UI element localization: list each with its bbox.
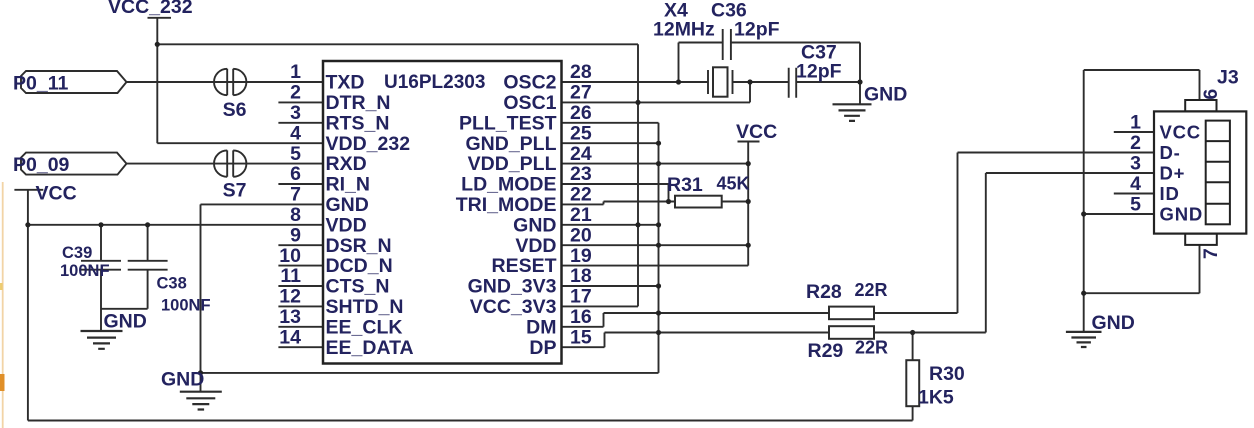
svg-text:C39: C39: [62, 244, 92, 262]
svg-text:CTS_N: CTS_N: [326, 276, 390, 298]
svg-text:DM: DM: [526, 316, 556, 338]
svg-text:DTR_N: DTR_N: [326, 92, 391, 114]
svg-text:D-: D-: [1160, 142, 1181, 163]
svg-text:22: 22: [570, 184, 592, 206]
svg-text:VCC_3V3: VCC_3V3: [470, 296, 557, 318]
svg-text:U16PL2303: U16PL2303: [384, 72, 485, 93]
svg-text:3: 3: [1130, 153, 1141, 175]
svg-text:21: 21: [570, 204, 592, 226]
svg-text:7: 7: [1200, 248, 1222, 259]
svg-text:12MHz: 12MHz: [653, 19, 715, 41]
svg-text:17: 17: [570, 286, 592, 308]
svg-text:6: 6: [290, 163, 301, 185]
svg-text:28: 28: [570, 61, 592, 83]
svg-text:GND: GND: [161, 369, 204, 391]
svg-text:VDD_PLL: VDD_PLL: [468, 153, 557, 175]
svg-text:27: 27: [570, 82, 592, 104]
svg-text:22R: 22R: [855, 338, 888, 358]
svg-text:13: 13: [279, 306, 301, 328]
svg-text:12pF: 12pF: [796, 61, 842, 83]
svg-text:GND: GND: [104, 311, 147, 333]
svg-text:11: 11: [280, 265, 301, 287]
svg-text:VCC: VCC: [1160, 122, 1201, 143]
svg-text:R29: R29: [808, 340, 844, 362]
svg-text:GND: GND: [326, 194, 369, 216]
svg-text:LD_MODE: LD_MODE: [461, 174, 556, 196]
svg-text:VCC: VCC: [736, 121, 777, 143]
svg-text:S7: S7: [223, 180, 247, 202]
svg-text:D+: D+: [1160, 163, 1186, 184]
svg-text:26: 26: [570, 102, 592, 124]
svg-text:R31: R31: [667, 174, 703, 196]
svg-text:100NF: 100NF: [161, 297, 211, 315]
svg-text:VCC: VCC: [36, 183, 77, 205]
svg-text:RXD: RXD: [326, 153, 367, 175]
svg-text:VDD: VDD: [326, 214, 367, 236]
svg-text:12pF: 12pF: [734, 19, 780, 41]
svg-text:12: 12: [279, 286, 301, 308]
svg-text:5: 5: [290, 143, 301, 165]
svg-text:TRI_MODE: TRI_MODE: [456, 194, 557, 216]
svg-text:GND: GND: [1092, 312, 1135, 334]
svg-text:DCD_N: DCD_N: [326, 255, 393, 277]
svg-text:P0_09: P0_09: [13, 154, 70, 176]
svg-text:15: 15: [570, 326, 592, 348]
svg-text:100NF: 100NF: [60, 262, 110, 280]
svg-text:VCC_232: VCC_232: [108, 0, 193, 18]
svg-text:16: 16: [570, 306, 592, 328]
svg-text:2: 2: [1130, 132, 1141, 154]
svg-text:1: 1: [1130, 112, 1141, 134]
svg-text:45K: 45K: [717, 174, 750, 194]
svg-text:EE_DATA: EE_DATA: [326, 337, 414, 359]
svg-text:PLL_TEST: PLL_TEST: [459, 112, 557, 134]
svg-text:RESET: RESET: [491, 255, 556, 277]
svg-text:RTS_N: RTS_N: [326, 112, 390, 134]
svg-text:ID: ID: [1160, 183, 1180, 204]
svg-text:R30: R30: [929, 363, 965, 385]
svg-text:C38: C38: [157, 275, 187, 293]
svg-text:25: 25: [570, 122, 592, 144]
svg-text:OSC1: OSC1: [503, 92, 556, 114]
svg-text:RI_N: RI_N: [326, 174, 370, 196]
svg-text:GND_PLL: GND_PLL: [465, 133, 556, 155]
svg-text:GND: GND: [1160, 204, 1204, 225]
svg-text:VDD_232: VDD_232: [326, 133, 411, 155]
svg-text:VDD: VDD: [515, 235, 556, 257]
svg-text:3: 3: [290, 102, 301, 124]
svg-text:J3: J3: [1217, 67, 1239, 89]
svg-text:SHTD_N: SHTD_N: [326, 296, 404, 318]
svg-text:22R: 22R: [855, 280, 888, 300]
svg-text:GND: GND: [513, 214, 556, 236]
svg-text:5: 5: [1130, 194, 1141, 216]
svg-text:1K5: 1K5: [918, 387, 954, 409]
svg-text:1: 1: [290, 61, 301, 83]
svg-text:DSR_N: DSR_N: [326, 235, 392, 257]
svg-text:14: 14: [279, 326, 301, 348]
svg-text:8: 8: [290, 204, 301, 226]
svg-text:R28: R28: [806, 281, 842, 303]
svg-text:7: 7: [290, 184, 301, 206]
svg-text:TXD: TXD: [326, 72, 365, 94]
svg-text:EE_CLK: EE_CLK: [326, 316, 403, 338]
svg-text:P0_11: P0_11: [13, 73, 68, 95]
svg-text:4: 4: [1130, 173, 1141, 195]
svg-text:10: 10: [279, 245, 301, 267]
svg-text:2: 2: [290, 82, 301, 104]
svg-text:GND: GND: [864, 84, 907, 106]
svg-text:S6: S6: [223, 99, 247, 121]
svg-text:23: 23: [570, 163, 592, 185]
svg-text:OSC2: OSC2: [503, 72, 556, 94]
svg-text:18: 18: [570, 265, 592, 287]
svg-text:9: 9: [290, 224, 301, 246]
svg-text:20: 20: [570, 224, 592, 246]
svg-text:19: 19: [570, 245, 592, 267]
svg-text:4: 4: [290, 122, 301, 144]
svg-text:6: 6: [1200, 89, 1222, 100]
svg-text:24: 24: [570, 143, 592, 165]
svg-text:DP: DP: [529, 337, 556, 359]
svg-text:GND_3V3: GND_3V3: [468, 276, 557, 298]
